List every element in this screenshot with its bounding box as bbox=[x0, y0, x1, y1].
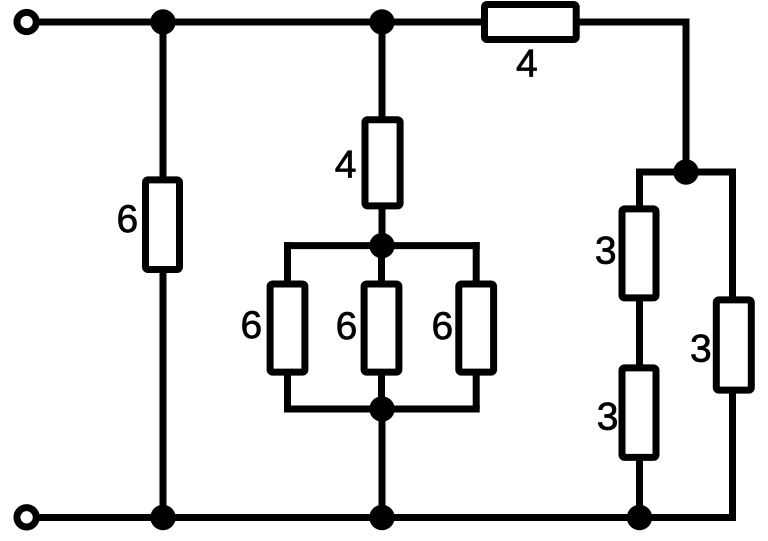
resistor R4 (6 ohm, parallel left) bbox=[270, 284, 305, 372]
node A2 (top rail / middle branch junction) bbox=[369, 9, 394, 34]
svg-text:6: 6 bbox=[117, 198, 139, 241]
wire top rail from terminal to top-right corner bbox=[37, 19, 686, 26]
node A1 (top rail / left branch junction) bbox=[150, 9, 175, 34]
wire parallel-group top bus bbox=[284, 242, 480, 249]
resistor R1 (4 ohm, horizontal top) bbox=[485, 5, 577, 40]
resistor R2 (6 ohm, left branch) bbox=[146, 180, 180, 270]
svg-text:6: 6 bbox=[336, 305, 358, 348]
wire parallel-group bottom bus bbox=[284, 406, 480, 413]
node E2 (bottom rail / middle branch junction) bbox=[369, 505, 394, 530]
svg-text:4: 4 bbox=[335, 143, 357, 186]
wire parallel-right drop (through R6) bbox=[473, 242, 480, 409]
resistor R3 (4 ohm, middle branch) bbox=[365, 120, 400, 206]
wire middle branch vertical bottom bbox=[379, 409, 386, 518]
svg-text:3: 3 bbox=[595, 229, 617, 272]
node D (parallel group bottom junction) bbox=[369, 396, 394, 421]
node B (right section top junction) bbox=[673, 159, 698, 184]
svg-text:4: 4 bbox=[516, 43, 538, 86]
wire left branch vertical (through R2) bbox=[160, 22, 167, 518]
terminal T1 (top-left input) bbox=[17, 12, 36, 31]
svg-text:6: 6 bbox=[241, 304, 263, 347]
wire series branch vertical (through R7,R8) bbox=[636, 169, 643, 518]
wire middle branch vertical top (through R3) bbox=[379, 22, 386, 246]
resistor R7 (3 ohm, series top) bbox=[622, 209, 656, 298]
resistor R5 (6 ohm, parallel middle) bbox=[364, 284, 399, 372]
wire right outer branch vertical (through R9) bbox=[729, 169, 736, 522]
wire parallel-left drop (through R4) bbox=[284, 242, 291, 409]
terminal T2 (bottom-left input) bbox=[17, 508, 36, 527]
svg-text:6: 6 bbox=[431, 305, 453, 348]
wire parallel-middle drop (through R5) bbox=[378, 246, 385, 409]
node C (parallel group top junction) bbox=[369, 233, 394, 258]
wire top-right corner drop to node B bbox=[683, 19, 690, 173]
svg-text:3: 3 bbox=[690, 328, 712, 371]
resistor R9 (3 ohm, right outer) bbox=[716, 300, 751, 390]
resistor R6 (6 ohm, parallel right) bbox=[459, 284, 494, 372]
svg-text:3: 3 bbox=[597, 396, 619, 439]
wire bottom rail bbox=[37, 514, 736, 521]
resistor R8 (3 ohm, series bottom) bbox=[622, 368, 656, 458]
node E1 (bottom rail / left branch junction) bbox=[150, 505, 175, 530]
wire right-section top bus at node B bbox=[638, 169, 737, 176]
node E3 (bottom rail / series branch junction) bbox=[627, 505, 652, 530]
